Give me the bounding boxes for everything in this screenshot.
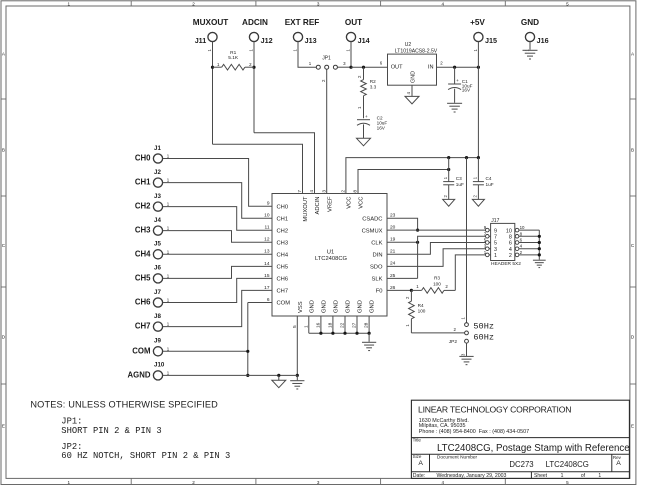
svg-text:2: 2 [509,253,512,259]
svg-text:4: 4 [442,1,445,6]
svg-text:60 HZ NOTCH, SHORT PIN 2 & PIN: 60 HZ NOTCH, SHORT PIN 2 & PIN 3 [61,451,230,461]
svg-text:16V: 16V [377,126,386,131]
svg-text:6: 6 [520,238,523,243]
svg-text:GND: GND [309,300,315,313]
svg-text:SDO: SDO [370,265,383,271]
svg-text:J11: J11 [195,36,207,45]
svg-text:CSADC: CSADC [362,217,382,223]
svg-text:6: 6 [380,61,383,66]
svg-text:GND: GND [346,300,352,313]
svg-text:7: 7 [297,190,303,193]
svg-text:21: 21 [390,249,396,255]
svg-text:DIN: DIN [373,253,383,259]
svg-text:1: 1 [167,346,170,351]
svg-text:MUXOUT: MUXOUT [193,18,228,27]
svg-text:JP2: JP2 [449,339,458,345]
svg-text:60Hz: 60Hz [473,333,494,343]
svg-text:1: 1 [167,202,170,207]
svg-text:1: 1 [598,473,601,479]
svg-text:GND: GND [411,71,417,83]
svg-text:1: 1 [561,473,564,479]
svg-text:1: 1 [68,1,71,6]
svg-text:Phone : (408) 954-8400 Fax :: Phone : (408) 954-8400 Fax : (408) 434-0… [419,429,529,435]
svg-text:2: 2 [445,284,448,289]
svg-text:GND: GND [370,300,376,313]
svg-text:CLK: CLK [371,241,382,247]
svg-text:Title: Title [413,437,422,442]
svg-text:1: 1 [460,317,465,320]
svg-text:B: B [2,148,5,153]
svg-text:VREF: VREF [327,196,333,212]
svg-text:5: 5 [566,1,569,6]
svg-text:1: 1 [473,176,478,179]
svg-text:IN: IN [428,65,434,71]
svg-text:R1: R1 [230,50,236,56]
svg-text:3: 3 [321,190,327,193]
svg-text:1: 1 [443,176,448,179]
svg-text:4: 4 [442,480,445,485]
svg-text:E: E [2,424,5,429]
svg-text:COM: COM [277,301,291,307]
svg-text:10: 10 [506,228,512,234]
svg-text:+: + [456,78,459,83]
svg-text:J17: J17 [491,218,499,224]
svg-text:1uF: 1uF [486,182,494,187]
svg-text:15: 15 [264,273,270,279]
svg-text:CH5: CH5 [277,265,289,271]
svg-text:Wednesday, January 29, 2003: Wednesday, January 29, 2003 [437,473,507,479]
svg-text:Size: Size [413,454,422,459]
svg-text:1: 1 [167,322,170,327]
svg-text:1: 1 [345,49,350,52]
svg-text:J14: J14 [358,36,370,45]
svg-text:CH4: CH4 [277,253,289,259]
svg-text:GND: GND [334,300,340,313]
svg-text:CH5: CH5 [135,273,151,282]
svg-text:100: 100 [433,281,441,286]
svg-text:J16: J16 [537,36,549,45]
svg-text:of: of [581,473,586,479]
svg-text:GND: GND [358,300,364,313]
svg-text:1: 1 [494,253,497,259]
svg-text:VCC: VCC [347,197,353,209]
svg-text:5: 5 [494,241,497,247]
svg-text:1: 1 [167,298,170,303]
svg-text:1: 1 [167,249,170,254]
svg-text:2: 2 [357,75,362,78]
svg-text:9: 9 [494,228,497,234]
svg-text:12: 12 [264,237,270,243]
svg-text:1: 1 [167,154,170,159]
svg-text:J12: J12 [261,36,273,45]
svg-text:1: 1 [473,49,478,52]
svg-text:U1: U1 [327,250,334,256]
svg-text:26: 26 [390,285,396,291]
svg-text:J5: J5 [154,241,161,248]
svg-text:14: 14 [264,261,270,267]
svg-text:4: 4 [309,190,315,193]
svg-text:AGND: AGND [128,370,151,379]
svg-text:MUXOUT: MUXOUT [303,196,309,222]
svg-text:7: 7 [494,235,497,241]
svg-text:J3: J3 [154,193,161,200]
svg-text:CH7: CH7 [135,322,151,331]
svg-text:1: 1 [167,178,170,183]
svg-text:2: 2 [520,250,523,255]
svg-text:100: 100 [418,309,426,314]
svg-text:J8: J8 [154,313,161,320]
svg-text:E: E [631,424,634,429]
svg-text:8: 8 [520,231,523,236]
svg-text:11: 11 [265,225,270,231]
svg-text:C3: C3 [456,176,462,181]
svg-text:2: 2 [405,296,410,299]
svg-text:J6: J6 [154,265,161,272]
svg-text:1: 1 [167,226,170,231]
svg-text:SHORT PIN 2 & PIN 3: SHORT PIN 2 & PIN 3 [61,426,161,436]
svg-text:CSMUX: CSMUX [362,229,383,235]
svg-text:3: 3 [460,353,465,356]
svg-text:GND: GND [322,300,328,313]
svg-text:B: B [631,148,634,153]
svg-text:1: 1 [167,274,170,279]
svg-text:Document Number: Document Number [437,454,478,460]
svg-text:J7: J7 [154,289,161,296]
svg-text:A: A [631,52,635,57]
svg-text:10: 10 [520,225,525,230]
svg-text:J4: J4 [154,217,161,224]
svg-text:HEADER 5X2: HEADER 5X2 [491,261,521,267]
svg-text:2: 2 [192,480,195,485]
svg-text:4: 4 [406,92,411,95]
svg-text:2: 2 [453,327,456,332]
svg-text:ADCIN: ADCIN [242,18,268,27]
svg-text:8: 8 [353,190,359,193]
svg-text:6: 6 [267,297,270,303]
svg-text:2: 2 [443,195,448,198]
svg-text:CH3: CH3 [277,241,289,247]
svg-text:+5V: +5V [470,18,485,27]
svg-text:8: 8 [509,235,512,241]
svg-text:1: 1 [416,284,419,289]
svg-text:JP1:: JP1: [61,416,82,426]
svg-text:J2: J2 [154,169,161,176]
svg-text:CH6: CH6 [277,277,289,283]
svg-text:2: 2 [321,79,326,82]
svg-text:R4: R4 [418,303,424,308]
svg-text:VCC: VCC [359,197,365,209]
svg-text:5.1K: 5.1K [228,55,239,61]
svg-text:Sheet: Sheet [534,473,548,479]
svg-text:1: 1 [248,49,253,52]
svg-text:LTC2408CG: LTC2408CG [546,460,589,469]
svg-text:19: 19 [390,237,396,243]
svg-text:ADCIN: ADCIN [315,197,321,215]
svg-text:J9: J9 [154,338,161,345]
svg-text:A: A [418,460,423,467]
svg-text:J13: J13 [305,36,317,45]
svg-text:OUT: OUT [391,65,403,71]
svg-text:SLK: SLK [372,277,383,283]
svg-text:24: 24 [390,261,396,267]
svg-text:A: A [2,52,6,57]
svg-text:A: A [616,460,621,467]
svg-text:CH1: CH1 [277,217,289,223]
svg-text:CH2: CH2 [135,202,151,211]
svg-text:LT1019ACS8-2.5V: LT1019ACS8-2.5V [395,49,438,55]
svg-text:2: 2 [249,62,252,67]
svg-text:4: 4 [509,247,512,253]
svg-text:C: C [2,243,6,248]
svg-text:50Hz: 50Hz [473,321,494,331]
svg-text:CH4: CH4 [135,249,151,258]
svg-text:2: 2 [192,1,195,6]
svg-text:VSS: VSS [298,301,304,313]
svg-text:D: D [2,335,6,340]
svg-text:OUT: OUT [345,18,362,27]
svg-text:1: 1 [68,480,71,485]
svg-text:6: 6 [509,241,512,247]
svg-text:5: 5 [566,480,569,485]
svg-text:J10: J10 [154,362,165,369]
svg-text:CH7: CH7 [277,289,289,295]
svg-text:CH6: CH6 [135,298,151,307]
svg-text:LINEAR TECHNOLOGY CORPORATION: LINEAR TECHNOLOGY CORPORATION [418,404,571,414]
svg-text:F0: F0 [376,289,383,295]
svg-text:1: 1 [292,49,297,52]
svg-text:1: 1 [309,61,312,66]
svg-text:CH2: CH2 [277,229,289,235]
svg-text:2: 2 [341,190,347,193]
svg-text:3: 3 [317,1,320,6]
svg-text:3: 3 [494,247,497,253]
svg-text:J1: J1 [154,145,161,152]
svg-text:25: 25 [390,273,396,279]
svg-text:JP1: JP1 [322,56,331,62]
svg-text:3: 3 [343,61,346,66]
svg-text:1: 1 [357,106,362,109]
svg-text:2: 2 [473,195,478,198]
svg-text:R3: R3 [434,276,440,281]
svg-text:COM: COM [132,346,150,355]
svg-text:+: + [365,114,368,119]
svg-text:R2: R2 [370,79,376,84]
svg-text:CH0: CH0 [135,154,151,163]
svg-text:1: 1 [167,371,170,376]
svg-text:GND: GND [521,18,539,27]
svg-text:C: C [631,243,635,248]
svg-text:4: 4 [520,244,523,249]
svg-text:DC273: DC273 [509,460,533,469]
svg-text:J15: J15 [485,36,497,45]
svg-text:3.3: 3.3 [370,85,377,90]
svg-text:D: D [631,335,635,340]
svg-text:1: 1 [217,62,220,67]
svg-text:1: 1 [405,324,410,327]
svg-text:C4: C4 [486,176,492,181]
svg-text:LTC2408CG: LTC2408CG [315,256,348,262]
svg-text:EXT REF: EXT REF [285,18,320,27]
svg-text:2: 2 [440,61,443,66]
svg-text:3: 3 [317,480,320,485]
svg-text:U2: U2 [405,42,412,48]
svg-text:16V: 16V [462,88,471,93]
svg-text:CH3: CH3 [135,226,151,235]
svg-text:1uF: 1uF [456,182,464,187]
svg-text:NOTES: UNLESS OTHERWISE SPECIF: NOTES: UNLESS OTHERWISE SPECIFIED [30,400,218,410]
svg-text:LTC2408CG, Postage Stamp with: LTC2408CG, Postage Stamp with Reference [437,443,630,454]
svg-text:Date:: Date: [413,473,425,479]
svg-text:1: 1 [207,49,212,52]
svg-text:CH1: CH1 [135,178,151,187]
svg-text:CH0: CH0 [277,205,289,211]
